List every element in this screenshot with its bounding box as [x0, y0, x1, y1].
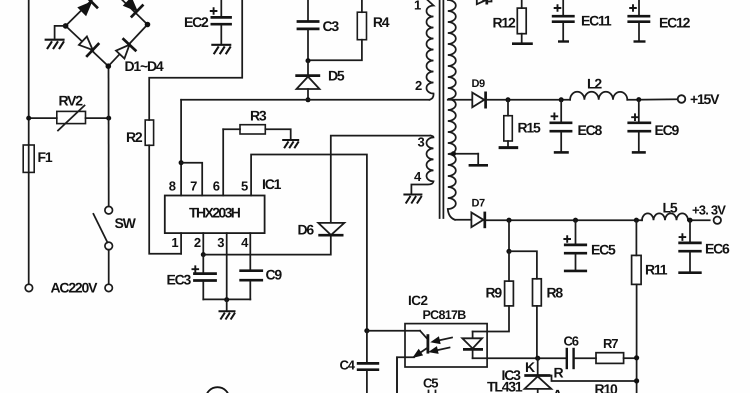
svg-text:RV2: RV2	[59, 93, 84, 109]
svg-text:R10: R10	[595, 381, 618, 393]
svg-text:4: 4	[414, 169, 422, 184]
svg-text:L5: L5	[663, 200, 678, 216]
svg-text:F1: F1	[38, 149, 53, 165]
svg-text:EC2: EC2	[184, 14, 209, 30]
wire bridge arm upper-left	[66, 0, 92, 26]
svg-text:R3: R3	[250, 108, 267, 124]
ground at R15	[499, 146, 519, 149]
wire C4 lead	[366, 331, 368, 362]
ground at R12	[512, 42, 533, 45]
resistor R9	[473, 251, 514, 331]
ground at center tap	[469, 164, 488, 167]
svg-text:A: A	[553, 387, 563, 393]
wire pin6 up to R3	[222, 129, 224, 195]
light arrow 2	[430, 347, 450, 353]
AC terminal circle right	[105, 284, 112, 291]
capacitor EC2	[210, 0, 232, 44]
wire secondary bottom to D7	[455, 219, 471, 221]
svg-text:L2: L2	[587, 76, 602, 92]
capacitor EC12	[627, 0, 650, 40]
svg-text:D1~D4: D1~D4	[125, 58, 164, 74]
wire SW to terminal	[108, 250, 110, 285]
op-amp U1 IC1 box	[165, 196, 265, 234]
diode D1 upper-left arm	[76, 0, 98, 18]
capacitor EC8	[550, 100, 573, 151]
transistor Q1 opto base bar	[426, 334, 429, 353]
wire secondary center tap	[450, 154, 478, 165]
resistor R2	[145, 120, 153, 145]
wire ground stub	[226, 300, 228, 310]
fuse F1	[23, 145, 34, 172]
svg-text:IC1: IC1	[262, 176, 282, 192]
resistor R12	[517, 0, 526, 42]
node R10 out	[634, 378, 639, 383]
diode LED in IC2	[462, 332, 483, 359]
transformer aux winding 3-4	[411, 136, 433, 193]
svg-text:C6: C6	[564, 334, 579, 349]
transformer primary winding 1-2	[427, 0, 434, 100]
wire pin5 feedback	[251, 155, 367, 331]
node D5 bottom on rail	[306, 97, 311, 102]
node RV2 right	[106, 116, 111, 121]
svg-text:EC9: EC9	[655, 122, 680, 138]
wire bridge left corner to ground	[55, 26, 66, 38]
svg-text:D9: D9	[472, 78, 486, 90]
svg-text:EC12: EC12	[659, 15, 691, 31]
svg-text:EC3: EC3	[167, 272, 192, 288]
svg-text:2: 2	[415, 78, 422, 93]
wire AC line left vertical	[28, 0, 30, 284]
node bridge left corner	[63, 23, 69, 29]
capacitor EC6	[678, 220, 701, 271]
svg-text:C3: C3	[323, 18, 340, 34]
diode D9	[472, 92, 485, 109]
svg-text:K: K	[525, 359, 535, 375]
node ground rail	[224, 297, 229, 302]
node R7 out	[634, 355, 639, 360]
wire LED cathode to K node	[473, 357, 567, 359]
svg-text:R4: R4	[373, 14, 390, 30]
svg-text:+15V: +15V	[690, 91, 720, 107]
resistor R3	[223, 125, 291, 139]
svg-text:D5: D5	[328, 68, 345, 84]
transistor Q1 opto emitter	[397, 348, 428, 393]
wire R2 bottom to pin1	[149, 145, 181, 254]
svg-text:R: R	[554, 365, 564, 381]
diode D8 partial top	[477, 0, 492, 5]
resistor R8	[509, 251, 541, 358]
terminal +15V	[678, 95, 686, 103]
ground at EC12	[634, 40, 646, 42]
ground under IC1	[219, 311, 236, 319]
wire pin1 lead	[180, 233, 182, 254]
svg-text:R9: R9	[486, 285, 503, 301]
node RV2 left	[26, 116, 31, 121]
svg-text:6: 6	[213, 179, 220, 194]
wire bridge arm upper-right	[122, 0, 147, 25]
inductor L2	[570, 92, 627, 100]
diode D4 lower-right arm	[113, 38, 136, 61]
capacitor C3	[297, 0, 320, 61]
ground at EC5	[564, 270, 587, 273]
svg-text:5: 5	[241, 179, 248, 194]
varistor RV2	[57, 106, 86, 131]
circled number 2	[206, 387, 230, 393]
svg-text:C4: C4	[340, 358, 356, 373]
svg-text:4: 4	[241, 235, 249, 250]
svg-text:C9: C9	[266, 267, 283, 283]
svg-text:+3. 3V: +3. 3V	[692, 203, 726, 218]
svg-text:THX203H: THX203H	[189, 205, 241, 221]
ground at EC8	[554, 151, 569, 154]
wire L2 to terminal	[627, 98, 677, 101]
svg-text:8: 8	[169, 179, 176, 194]
wire primary rail	[181, 99, 429, 101]
svg-text:2: 2	[194, 235, 201, 250]
wire bridge arm lower-right	[108, 25, 147, 67]
wire pin2 to D6	[203, 236, 330, 254]
node bridge right corner	[145, 22, 151, 28]
ground at EC6	[678, 271, 701, 274]
node EC9 tap	[636, 97, 641, 102]
node C3/R4/D5	[306, 58, 311, 63]
svg-text:D7: D7	[472, 198, 486, 210]
capacitor C4	[357, 363, 379, 393]
ground at aux winding	[403, 195, 422, 204]
diode D7	[471, 212, 484, 229]
light arrow 1	[432, 337, 453, 343]
transformer T1 core	[440, 0, 444, 218]
node center tap	[451, 151, 456, 156]
wire +15V rail	[487, 99, 570, 101]
ground at R3	[282, 140, 299, 148]
wire opto collector	[367, 331, 428, 340]
shunt-reg IC3 TL431	[524, 358, 551, 393]
svg-text:C5: C5	[423, 376, 438, 391]
resistor R4	[308, 0, 367, 60]
capacitor C5 partial plates	[429, 391, 436, 393]
wire pin2 lead	[202, 233, 204, 255]
svg-text:EC6: EC6	[705, 241, 730, 257]
resistor R15	[504, 100, 513, 146]
capacitor C6	[567, 348, 596, 369]
svg-text:AC220V: AC220V	[51, 280, 99, 296]
ground at EC9	[632, 151, 646, 154]
node bridge bottom corner	[106, 63, 112, 69]
capacitor EC5	[563, 220, 587, 269]
svg-text:1: 1	[171, 235, 178, 250]
svg-text:R11: R11	[645, 262, 668, 278]
node K	[535, 356, 540, 361]
svg-text:SW: SW	[115, 215, 137, 231]
diode D3 lower-left arm	[76, 34, 99, 57]
wire pin7 jog	[181, 163, 202, 196]
svg-text:R7: R7	[603, 336, 618, 351]
wire secondary tap to D9	[448, 99, 472, 101]
svg-text:3: 3	[217, 235, 224, 250]
svg-text:D6: D6	[298, 222, 315, 238]
svg-text:EC8: EC8	[578, 122, 603, 138]
wire +3.3V rail	[486, 219, 642, 221]
wire R tap	[548, 376, 637, 382]
node R11 tap	[634, 218, 639, 223]
node D7 out	[506, 218, 511, 223]
node EC5 tap	[573, 218, 578, 223]
svg-text:PC817B: PC817B	[423, 308, 467, 322]
svg-text:EC11: EC11	[581, 13, 612, 29]
resistor R11	[632, 220, 642, 393]
node EC8 tap	[559, 97, 564, 102]
wire pin3 lead	[226, 233, 228, 300]
diode D6	[318, 223, 344, 235]
ground at bridge	[45, 40, 65, 49]
ground at EC2	[211, 45, 231, 54]
resistor R7	[596, 353, 637, 364]
wire C5	[396, 357, 398, 393]
capacitor C9	[239, 271, 263, 300]
capacitor EC11	[552, 0, 575, 40]
svg-text:R2: R2	[126, 129, 143, 145]
node R15 tap	[506, 97, 511, 102]
svg-text:TL431: TL431	[487, 379, 523, 393]
transformer secondary winding	[448, 0, 456, 220]
wire RV2 row	[29, 117, 109, 119]
svg-text:3: 3	[418, 135, 425, 150]
node pin2	[201, 252, 206, 257]
inductor L5	[642, 213, 688, 220]
opto-coupler IC2 box	[405, 324, 487, 367]
svg-text:1: 1	[414, 0, 421, 13]
wire bridge bottom to SW	[108, 66, 110, 206]
wire L5 to terminal	[688, 219, 710, 221]
switch SW	[93, 206, 112, 249]
wire IC1 pin8 up	[180, 100, 182, 196]
node R9/R8 split	[506, 249, 511, 254]
capacitor EC9	[627, 100, 651, 151]
diode D5	[295, 61, 320, 100]
wire pin4 lead	[249, 233, 251, 270]
wire aux winding pin3 to D6	[331, 136, 431, 223]
ground at EC11	[558, 40, 569, 42]
node pin8/pin7	[179, 160, 184, 165]
wire D7 node down	[508, 220, 510, 251]
svg-text:R8: R8	[547, 285, 564, 301]
AC terminal circle left	[25, 284, 32, 291]
wire bridge arm lower-left	[66, 26, 109, 66]
svg-text:R12: R12	[493, 15, 516, 31]
svg-text:R15: R15	[518, 120, 541, 136]
svg-text:7: 7	[190, 179, 197, 194]
diode D2 upper-right arm	[121, 0, 143, 17]
wire R2 top elbow	[149, 0, 242, 120]
wire ground rail under IC1	[203, 298, 250, 300]
svg-text:EC5: EC5	[591, 242, 616, 258]
node feedback C4	[364, 328, 369, 333]
node EC6 tap	[687, 218, 692, 223]
terminal +3.3V	[714, 217, 721, 224]
svg-text:IC2: IC2	[408, 293, 428, 308]
capacitor EC3	[192, 255, 217, 300]
